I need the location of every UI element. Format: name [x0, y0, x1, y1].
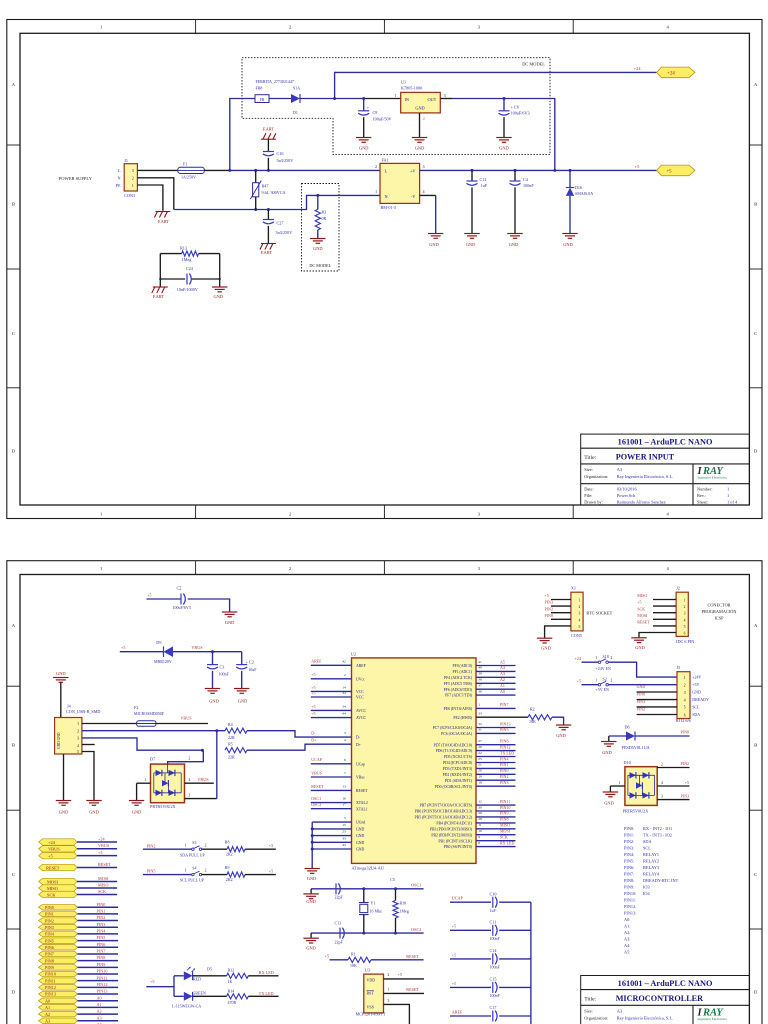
- svg-text:PIN8: PIN8: [545, 613, 553, 618]
- wire J5 PIN2: [637, 714, 677, 716]
- svg-text:100nF: 100nF: [523, 183, 534, 188]
- svg-text:3: 3: [478, 566, 481, 571]
- net flag MISO: [39, 885, 77, 891]
- svg-text:PIN1: PIN1: [45, 912, 54, 917]
- svg-text:File:: File:: [584, 493, 592, 498]
- svg-text:Organization:: Organization:: [584, 1016, 608, 1021]
- svg-text:PD0 (OC0B/SCL/INT0): PD0 (OC0B/SCL/INT0): [435, 785, 473, 789]
- svg-text:GND: GND: [56, 671, 66, 676]
- wire J2 pin6 to ground: [639, 633, 676, 638]
- svg-text:AVCC: AVCC: [356, 716, 367, 720]
- svg-text:PIN13: PIN13: [45, 992, 56, 997]
- svg-text:XTAL2: XTAL2: [356, 801, 368, 805]
- wire U3 pin1 RESET: [384, 992, 425, 994]
- svg-text:MOSI: MOSI: [500, 829, 511, 834]
- svg-text:44: 44: [342, 712, 346, 716]
- resistor R4 22R: [225, 722, 247, 740]
- svg-text:+: +: [179, 588, 181, 592]
- wire J1 N to neutral rail: [137, 178, 173, 210]
- svg-text:22R: 22R: [228, 735, 235, 740]
- net flag PIN1: [39, 911, 78, 917]
- svg-text:DREADY: DREADY: [692, 697, 709, 702]
- svg-text:SDA: SDA: [692, 712, 700, 717]
- svg-text:C5: C5: [390, 877, 395, 882]
- svg-text:MICROCONTROLLER: MICROCONTROLLER: [616, 994, 703, 1003]
- svg-text:Organization:: Organization:: [584, 474, 608, 479]
- svg-text:5: 5: [684, 625, 686, 629]
- junction R10 OSC1: [394, 887, 397, 890]
- page 1 frame labels: [12, 25, 758, 517]
- svg-text:17: 17: [342, 803, 346, 807]
- svg-text:PIN12: PIN12: [45, 985, 56, 990]
- U2 pin 4 D+: [344, 738, 361, 747]
- junction D7 pin2: [201, 749, 204, 752]
- svg-text:PIN4: PIN4: [45, 932, 55, 937]
- svg-text:A1: A1: [500, 683, 505, 688]
- svg-text:ATmega32U4-AU: ATmega32U4-AU: [352, 865, 385, 870]
- wire J1 PE to earth: [137, 185, 163, 211]
- svg-text:L: L: [385, 168, 388, 173]
- svg-text:PIN5: PIN5: [147, 869, 156, 874]
- title block text: [584, 437, 738, 504]
- svg-text:D: D: [754, 990, 758, 995]
- net flag PIN7: [39, 951, 78, 957]
- U2 pin 32 PC7 (ICP3/CLK0/OC4A): [433, 721, 516, 730]
- svg-text:RELAY2: RELAY2: [643, 859, 659, 864]
- fuse F1 1A/250V: [178, 162, 205, 180]
- ground J4 pin4: [56, 801, 71, 806]
- U2 pin 33 GND: [311, 836, 365, 845]
- svg-text:22R: 22R: [228, 755, 235, 760]
- op-amp U3 MCP120T-450/TT: [356, 968, 386, 1017]
- svg-text:4: 4: [189, 778, 191, 782]
- svg-text:C17: C17: [490, 1005, 497, 1010]
- svg-text:Title:: Title:: [584, 455, 596, 461]
- svg-text:1: 1: [595, 656, 597, 660]
- ground C4: [507, 234, 522, 239]
- U2 pin 23 GND: [311, 830, 365, 839]
- svg-text:EART: EART: [153, 294, 165, 299]
- ground C24: [219, 279, 221, 287]
- svg-text:+5: +5: [452, 924, 456, 929]
- svg-text:PIN9: PIN9: [97, 962, 106, 967]
- U2 pin 16 XTAL2: [311, 796, 368, 805]
- svg-text:1: 1: [478, 703, 480, 707]
- svg-text:RX LED: RX LED: [259, 970, 274, 975]
- svg-text:PD3 (TXD1/INT3): PD3 (TXD1/INT3): [443, 767, 473, 771]
- ground U2: [305, 869, 320, 874]
- net flag +24: [39, 839, 77, 845]
- svg-text:CONECTOR: CONECTOR: [707, 603, 730, 608]
- svg-text:Drawn by:: Drawn by:: [584, 500, 603, 505]
- svg-text:R13: R13: [180, 245, 187, 250]
- svg-text:2: 2: [289, 566, 292, 571]
- wire J4 pin4 stub: [82, 744, 95, 746]
- capacitor C24 10nF/1000V: [160, 254, 219, 293]
- capacitor C15 100nF: [450, 977, 531, 998]
- svg-text:+5: +5: [398, 972, 402, 977]
- connector J5 RJ11 6/6: [676, 665, 691, 723]
- svg-text:MOSI: MOSI: [47, 879, 59, 884]
- svg-text:RESET: RESET: [356, 789, 368, 793]
- U2 pin 18 PD0 (OC0B/SCL/INT0): [435, 780, 516, 789]
- IRAY logo: [697, 1008, 728, 1021]
- svg-text:MISO: MISO: [500, 823, 510, 828]
- svg-text:RST: RST: [367, 990, 375, 995]
- svg-text:A0: A0: [45, 998, 50, 1003]
- svg-text:PIN2: PIN2: [681, 761, 689, 766]
- svg-text:A3: A3: [97, 1015, 102, 1020]
- svg-text:A2: A2: [97, 1009, 102, 1014]
- svg-text:L-115WEGW-CA: L-115WEGW-CA: [172, 1004, 201, 1009]
- svg-text:D10: D10: [624, 760, 631, 765]
- capacitor C27 3n3/250V: [263, 210, 292, 244]
- svg-text:PIN8: PIN8: [681, 729, 689, 734]
- wire J2 MOSI: [653, 618, 676, 620]
- svg-text:VBUS: VBUS: [48, 847, 60, 852]
- net flag PIN4: [39, 931, 78, 937]
- svg-text:Ray Ingeniería Electrónica, S.: Ray Ingeniería Electrónica, S.L.: [617, 474, 674, 480]
- wire J2 MISO: [653, 599, 676, 601]
- capacitor C9 100uF/50V: [358, 99, 391, 138]
- svg-text:PIN1:: PIN1:: [624, 833, 634, 838]
- wire J2 SCK: [653, 612, 676, 614]
- svg-text:D: D: [12, 990, 16, 995]
- ground C2: [234, 689, 249, 694]
- svg-text:+5: +5: [311, 711, 315, 716]
- wire X1 PIN8: [551, 618, 571, 620]
- ground R2: [556, 725, 571, 730]
- svg-text:PB1 (PCINT1/SCLK): PB1 (PCINT1/SCLK): [438, 839, 472, 843]
- svg-text:7: 7: [344, 771, 346, 775]
- svg-text:2: 2: [375, 165, 377, 169]
- svg-text:D1: D1: [293, 110, 298, 115]
- svg-text:10nF/1000V: 10nF/1000V: [177, 287, 198, 292]
- svg-text:3: 3: [344, 731, 346, 735]
- wire OSC1 rail: [311, 888, 424, 890]
- wire D7 pin3 riser: [185, 798, 217, 800]
- svg-text:A4: A4: [500, 665, 505, 670]
- svg-text:4: 4: [684, 618, 686, 622]
- net flag PIN0: [39, 904, 78, 910]
- svg-text:ICSP: ICSP: [714, 615, 724, 620]
- svg-text:AVCC: AVCC: [356, 709, 367, 713]
- svg-text:25: 25: [478, 757, 482, 761]
- svg-text:22pF: 22pF: [335, 895, 344, 900]
- U2 pin 14 VCC: [311, 685, 364, 694]
- svg-text:41: 41: [478, 660, 482, 664]
- U2 pin 36 PF7 (ADC7/TDI): [445, 689, 515, 698]
- U2 pin 28 PB4 (PCINT4/ADC11): [436, 817, 515, 826]
- U2 pin 31 PC6 (OC3A/OC4A): [441, 727, 515, 736]
- DC MODEL dashed box (regulator): [242, 58, 550, 155]
- svg-text:PB0 (SS/PCINT0): PB0 (SS/PCINT0): [444, 845, 473, 849]
- svg-text:GND: GND: [306, 899, 316, 904]
- resistor R2 10K: [528, 707, 552, 725]
- svg-text:GND: GND: [429, 242, 439, 247]
- svg-text:PD1 (SDA/INT1): PD1 (SDA/INT1): [445, 779, 473, 783]
- svg-text:EART: EART: [158, 219, 170, 224]
- svg-text:PIN2:: PIN2:: [624, 839, 634, 844]
- svg-text:GND: GND: [466, 242, 476, 247]
- svg-text:Number:: Number:: [697, 487, 713, 492]
- wire J5 GND: [637, 691, 677, 693]
- net flag PIN9: [39, 965, 78, 971]
- ground OSC2: [310, 933, 312, 938]
- svg-text:+ C2: + C2: [246, 660, 254, 665]
- svg-text:J5: J5: [677, 665, 681, 670]
- U2 pin 22 PD5 (XCK1/CTS): [444, 750, 516, 759]
- svg-text:UCap: UCap: [356, 762, 365, 766]
- diode D1 S1A: [291, 85, 300, 114]
- svg-text:PD7 (T0/OC4D/ADC10): PD7 (T0/OC4D/ADC10): [434, 743, 473, 747]
- svg-text:PD4 (ICP1/ADC8): PD4 (ICP1/ADC8): [443, 761, 473, 765]
- svg-text:11: 11: [478, 823, 482, 827]
- net flag PIN6: [39, 945, 78, 951]
- svg-text:PIN9: PIN9: [45, 965, 54, 970]
- svg-text:PE2 (HWB): PE2 (HWB): [453, 716, 472, 720]
- svg-text:VCC: VCC: [356, 696, 364, 700]
- svg-text:RELAY1: RELAY1: [643, 852, 659, 857]
- svg-text:D16: D16: [575, 185, 582, 190]
- svg-text:4: 4: [423, 190, 425, 194]
- svg-text:2: 2: [289, 512, 292, 517]
- svg-text:GND GND: GND GND: [57, 732, 61, 749]
- svg-text:2: 2: [205, 843, 207, 847]
- ground X1: [537, 638, 552, 643]
- svg-text:PIN5: PIN5: [97, 935, 106, 940]
- svg-text:PIN9:: PIN9:: [624, 885, 634, 890]
- svg-text:PIN8: PIN8: [637, 691, 645, 696]
- svg-text:3: 3: [132, 169, 134, 173]
- wire +5 rail: [420, 169, 657, 171]
- U2 pin 9 PB1 (PCINT1/SCLK): [438, 835, 515, 844]
- svg-text:1 of 4: 1 of 4: [727, 500, 738, 505]
- svg-text:A1: A1: [45, 1005, 50, 1010]
- svg-text:A0:: A0:: [624, 917, 630, 922]
- svg-text:PIN4: PIN4: [97, 929, 107, 934]
- svg-text:PIN9: PIN9: [500, 811, 508, 816]
- svg-text:42: 42: [342, 659, 346, 663]
- svg-text:A2: A2: [45, 1012, 50, 1017]
- svg-text:R5: R5: [228, 742, 233, 747]
- svg-text:CON3: CON3: [124, 193, 135, 198]
- svg-text:F1: F1: [183, 162, 187, 167]
- U2 pin 3 D-: [344, 731, 361, 740]
- svg-text:C10: C10: [490, 891, 497, 896]
- svg-text:2: 2: [289, 25, 292, 30]
- svg-text:5: 5: [684, 706, 686, 710]
- svg-text:15: 15: [342, 823, 346, 827]
- net flag RESET: [39, 864, 77, 870]
- U2 pin 19 PD1 (SDA/INT1): [445, 774, 516, 783]
- svg-text:DC MODEL: DC MODEL: [309, 263, 331, 268]
- svg-text:+5: +5: [147, 592, 151, 597]
- svg-text:1: 1: [100, 566, 103, 571]
- connector J1 CON3 power supply: [59, 158, 138, 198]
- svg-text:S4: S4: [192, 866, 196, 871]
- svg-text:MOSI: MOSI: [637, 613, 648, 618]
- svg-text:12: 12: [478, 799, 482, 803]
- svg-text:14: 14: [342, 685, 346, 689]
- svg-text:28: 28: [478, 817, 482, 821]
- U2 pin 10 PB2 (PDI/PCINT2/MOSI): [431, 829, 515, 838]
- net flag PIN5: [39, 938, 78, 944]
- svg-text:C9: C9: [373, 110, 378, 115]
- svg-text:UGnd: UGnd: [356, 821, 365, 825]
- IRAY logo: [697, 466, 728, 479]
- svg-text:2: 2: [189, 757, 191, 761]
- net flag PIN12: [39, 985, 78, 991]
- svg-text:EART: EART: [263, 126, 275, 131]
- wire D7 pin4 VBUS stub: [185, 782, 214, 784]
- svg-text:34: 34: [342, 691, 346, 695]
- svg-text:PF1 (ADC1): PF1 (ADC1): [452, 670, 472, 674]
- ground R3: [310, 239, 325, 244]
- svg-text:+5: +5: [637, 600, 641, 605]
- svg-text:470R: 470R: [228, 1000, 237, 1005]
- svg-text:PIN3: PIN3: [637, 699, 645, 704]
- svg-text:9: 9: [478, 835, 480, 839]
- U2 pin 12 PB7 (PCINT7/OC0A/OC1C/RTS): [420, 799, 516, 808]
- svg-text:GND: GND: [359, 146, 369, 151]
- power flag +5: [657, 165, 696, 176]
- svg-text:+5: +5: [98, 850, 102, 855]
- svg-text:PRTR5V0U2X: PRTR5V0U2X: [623, 808, 649, 813]
- svg-text:6: 6: [684, 632, 686, 636]
- svg-text:GND: GND: [209, 698, 219, 703]
- U2 pin 34 VCC: [311, 690, 364, 699]
- U2 pin 33 PE2 (HWB): [453, 712, 482, 720]
- svg-text:VBUS: VBUS: [180, 716, 192, 721]
- svg-text:3: 3: [77, 737, 79, 741]
- junction R47 top: [254, 169, 257, 172]
- svg-text:Size:: Size:: [584, 1009, 593, 1014]
- ground C6: [496, 138, 511, 143]
- svg-text:5: 5: [344, 816, 346, 820]
- svg-text:GND: GND: [59, 809, 69, 814]
- net flag PIN2: [39, 918, 78, 924]
- svg-text:GND: GND: [563, 242, 573, 247]
- svg-text:29: 29: [478, 811, 482, 815]
- svg-text:VBUS: VBUS: [311, 770, 322, 775]
- svg-text:+5: +5: [311, 704, 315, 709]
- svg-text:GND: GND: [637, 684, 646, 689]
- page 2 frame labels: [12, 566, 758, 1024]
- svg-text:PIN11:: PIN11:: [624, 898, 636, 903]
- resistor R5 22R: [225, 742, 247, 760]
- op-amp U1 K7805-1000 regulator: [395, 80, 446, 121]
- wire D1 to U1 IN: [300, 98, 364, 100]
- svg-text:C: C: [754, 872, 757, 877]
- svg-text:PIN3: PIN3: [681, 793, 689, 798]
- svg-text:4: 4: [578, 618, 580, 622]
- svg-text:C16: C16: [277, 151, 284, 156]
- resistor R12 1K: [227, 968, 249, 985]
- svg-text:4: 4: [344, 738, 346, 742]
- svg-text:PIN0: PIN0: [500, 768, 508, 773]
- svg-text:3: 3: [661, 794, 663, 798]
- svg-text:FB: FB: [260, 98, 265, 102]
- svg-text:OSC2: OSC2: [411, 927, 421, 932]
- wire +24 rail: [335, 72, 657, 98]
- svg-text:AREF: AREF: [356, 664, 366, 668]
- svg-text:S2: S2: [603, 676, 607, 681]
- capacitor C6 100uF/6V3: [499, 99, 530, 138]
- svg-text:A5: A5: [500, 659, 505, 664]
- svg-text:3: 3: [684, 612, 686, 616]
- pin function description text: [624, 826, 679, 955]
- svg-text:+24: +24: [667, 72, 675, 77]
- U2 pin 13 RESET: [311, 784, 368, 793]
- svg-text:1: 1: [185, 869, 187, 873]
- wire X1 pin5 to ground: [545, 626, 571, 638]
- svg-text:100nF: 100nF: [490, 993, 501, 998]
- svg-text:A3:: A3:: [624, 937, 630, 942]
- svg-text:PC6 (OC3A/OC4A): PC6 (OC3A/OC4A): [441, 732, 473, 736]
- U2 pin 8 PB0 (SS/PCINT0): [444, 840, 516, 849]
- svg-text:2: 2: [344, 673, 346, 677]
- wire J1 L to fuse F1: [137, 169, 177, 171]
- capacitor C13 22pF: [335, 920, 345, 944]
- svg-text:1A/250V: 1A/250V: [181, 174, 196, 179]
- svg-text:S3: S3: [192, 840, 196, 845]
- svg-text:PIN7:: PIN7:: [624, 872, 634, 877]
- capacitor C4 100nF: [510, 170, 535, 233]
- svg-text:TX - INT3 - IO2: TX - INT3 - IO2: [643, 833, 672, 838]
- svg-text:D+: D+: [356, 743, 361, 747]
- net flag A1: [39, 1005, 78, 1011]
- net flag A2: [39, 1011, 78, 1017]
- svg-text:B: B: [754, 202, 757, 207]
- svg-text:30: 30: [478, 805, 482, 809]
- svg-text:1K: 1K: [228, 979, 233, 984]
- wire R5 to U2 D+: [247, 744, 352, 750]
- svg-text:PF0 (ADC0): PF0 (ADC0): [452, 664, 472, 668]
- svg-text:100uF/50V: 100uF/50V: [373, 116, 392, 121]
- svg-text:RELAY3: RELAY3: [643, 865, 659, 870]
- svg-text:2: 2: [77, 729, 79, 733]
- svg-text:+5: +5: [311, 685, 315, 690]
- page 1 sheet border frame: [7, 20, 762, 519]
- svg-text:PIN3: PIN3: [97, 922, 106, 927]
- svg-text:1: 1: [684, 676, 686, 680]
- svg-text:POWER INPUT: POWER INPUT: [616, 453, 675, 462]
- U2 pin 41 PF0 (ADC0): [452, 659, 515, 668]
- svg-text:+5: +5: [269, 868, 273, 873]
- resistor R10 1Meg: [393, 889, 409, 933]
- svg-text:PIN11: PIN11: [500, 799, 510, 804]
- svg-text:DREADY-RTC INT: DREADY-RTC INT: [643, 878, 679, 883]
- title block: [581, 976, 750, 1024]
- svg-text:161001 – ArduPLC NANO: 161001 – ArduPLC NANO: [618, 437, 713, 446]
- svg-text:R1: R1: [351, 952, 356, 957]
- svg-text:PESD5V0L1UA: PESD5V0L1UA: [622, 745, 650, 750]
- svg-text:4: 4: [661, 781, 663, 785]
- svg-text:K7805-1000: K7805-1000: [401, 86, 422, 91]
- svg-text:+5: +5: [311, 690, 315, 695]
- svg-text:A3: A3: [617, 1009, 623, 1014]
- wire D10 pin4: [657, 785, 689, 787]
- svg-text:SCL: SCL: [643, 846, 651, 851]
- ground D7: [129, 801, 144, 806]
- svg-text:PIN12:: PIN12:: [624, 904, 636, 909]
- svg-text:IDC 6 PIN: IDC 6 PIN: [676, 639, 694, 644]
- diode D6 PESD5V0L1UA: [609, 725, 690, 750]
- ground C7: [222, 612, 237, 617]
- svg-text:31: 31: [478, 728, 482, 732]
- svg-text:D6: D6: [625, 725, 630, 730]
